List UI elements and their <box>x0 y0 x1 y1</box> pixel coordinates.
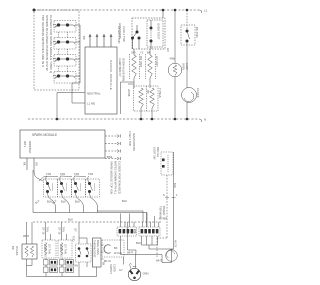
ignition switch SW1 <box>53 21 80 38</box>
svg-text:BK: BK <box>82 36 86 40</box>
node junction top-left <box>33 9 36 12</box>
power plug P1 <box>128 264 140 281</box>
contact dot B <box>131 37 134 40</box>
wire L1 top rail <box>34 9 199 11</box>
wire door switch bottom lead <box>166 175 168 238</box>
wire ignitor bottom lead <box>123 257 125 265</box>
ignitor switch S1 <box>44 176 58 201</box>
wire ignitor feed <box>128 222 137 250</box>
contact dot D <box>150 27 153 30</box>
spark module box U2 <box>20 130 105 158</box>
ignition switch SW4 <box>53 72 80 84</box>
ignitor resistor R2 <box>148 55 153 78</box>
ignitor switch S2 <box>58 176 72 201</box>
svg-text:Y2: Y2 <box>140 51 144 55</box>
ignitor resistor R4 <box>150 88 155 108</box>
surface valve box 1 <box>42 240 56 258</box>
wire valve top lead 1 <box>26 222 28 244</box>
svg-text:CLOCK: CLOCK <box>196 88 200 98</box>
thermostat switch box dashed <box>132 18 165 49</box>
oven ignitor horseshoe <box>104 245 111 253</box>
svg-text:WHT: WHT <box>127 251 133 255</box>
gas valve coil 2 <box>30 246 33 257</box>
control box U1 <box>85 47 117 114</box>
svg-text:LAMP: LAMP <box>185 63 188 70</box>
svg-text:20W8: 20W8 <box>127 89 131 97</box>
node L1 hook <box>199 10 202 13</box>
svg-text:TAN: TAN <box>73 265 78 268</box>
top ignition switches dashed enclosure <box>34 10 79 90</box>
svg-text:WHT: WHT <box>23 234 29 238</box>
svg-text:40W: 40W <box>170 57 176 61</box>
ignition switch SW3 <box>53 55 80 72</box>
svg-text:BLK: BLK <box>75 200 80 204</box>
wire switch outputs to bus <box>53 201 56 213</box>
svg-text:2 GR 4 TOP: 2 GR 4 TOP <box>122 26 126 42</box>
wire plug drop <box>134 250 137 268</box>
dashed guide right of R2 <box>155 54 157 79</box>
svg-text:BLK: BLK <box>68 218 73 222</box>
dashed guide left of R2 <box>145 54 147 79</box>
dashed box around R3 R4 <box>134 86 159 111</box>
svg-text:WHT: WHT <box>156 259 162 263</box>
svg-text:LR UNIT: LR UNIT <box>155 56 159 67</box>
node junction at 187,10 <box>186 9 189 12</box>
svg-text:BLK: BLK <box>136 241 141 245</box>
dashed divider between R3 R4 <box>146 86 148 111</box>
wire valve top lead 2 <box>31 222 33 244</box>
wire BLK bus solid <box>33 212 147 214</box>
wire switch top <box>186 10 188 31</box>
wire strip A outputs <box>120 236 122 255</box>
node junction at 57,119 <box>56 118 59 121</box>
bottom section group <box>22 152 177 281</box>
oven lamp circle <box>168 63 182 77</box>
svg-text:IGNITORS BK: IGNITORS BK <box>132 133 136 151</box>
oven light door switch dashed box <box>161 152 173 175</box>
svg-text:W·IGN: W·IGN <box>114 251 122 255</box>
wire contact drops <box>136 25 138 32</box>
wire bus corner down <box>146 213 148 228</box>
svg-text:BK: BK <box>147 51 151 55</box>
wire neutral into box <box>57 93 85 120</box>
svg-text:BK-IG: BK-IG <box>104 260 111 263</box>
wire switch bottom <box>186 41 188 88</box>
thermostat pin ticks <box>101 244 104 246</box>
pin arrow 2 <box>96 35 98 48</box>
connector row 1 block 2 <box>60 260 74 266</box>
node junction at 175,10 <box>174 9 177 12</box>
svg-text:BLK: BLK <box>122 199 127 203</box>
wire lamp top <box>174 10 176 63</box>
right cluster group <box>131 10 165 49</box>
svg-text:BK: BK <box>114 246 118 250</box>
pin arrow 3 <box>103 35 105 48</box>
wire valve to bottom rail <box>26 266 28 277</box>
switch blade <box>187 31 190 39</box>
contact dot A <box>136 31 139 34</box>
wire R3 bottom to N <box>140 108 142 119</box>
connector row 1 block 1 <box>44 260 58 266</box>
module box group <box>85 35 117 115</box>
svg-text:BLK: BLK <box>61 200 66 204</box>
svg-text:TAN: TAN <box>60 172 65 176</box>
wire down to WHT <box>156 238 158 258</box>
wire switch bus <box>72 25 85 103</box>
oven ignitor switch cluster <box>76 244 92 262</box>
dashed guide right of R1 <box>139 54 141 79</box>
lamp stem <box>168 249 172 263</box>
wire valve bottom leads <box>27 259 33 266</box>
svg-text:BK: BK <box>102 262 105 266</box>
gas valve coil 1 <box>25 246 28 257</box>
wire cluster bottom leads <box>78 262 80 277</box>
ignitor switch S3 <box>72 176 86 201</box>
right lamps group <box>168 10 196 119</box>
svg-text:240: 240 <box>131 51 136 55</box>
node junction at 175,119 <box>174 118 177 121</box>
svg-text:TAN: TAN <box>74 172 79 176</box>
spark module pin OR <box>33 158 35 172</box>
node junction at 141,119 <box>140 118 143 121</box>
contact dot E <box>150 40 153 43</box>
oven ignitor dashed box <box>102 240 124 257</box>
wire R2 leads <box>149 49 151 55</box>
resistors group <box>128 49 158 119</box>
wire cluster top leads <box>79 238 87 244</box>
clock motor circle <box>182 88 197 103</box>
surface valve box 2 <box>58 240 72 258</box>
svg-text:SPARK MODULE: SPARK MODULE <box>32 133 57 137</box>
connector row 2 block 1 <box>44 267 58 273</box>
wire N rail <box>28 118 199 120</box>
door switch bracket <box>167 155 169 172</box>
wire feeds strip B <box>141 222 143 227</box>
svg-text:N: N <box>204 118 206 122</box>
svg-text:N: N <box>163 194 165 197</box>
spark module pin BK <box>26 158 28 170</box>
node junction at 163,10 <box>162 9 165 12</box>
connector row 2 block 2 <box>60 267 74 273</box>
door switch contact top <box>162 159 165 162</box>
ignitor switch S4 <box>86 176 100 201</box>
wire left drop <box>32 170 34 213</box>
wire right main drop <box>173 152 175 249</box>
svg-text:T 05GA: T 05GA <box>158 88 162 98</box>
svg-text:ORN/BLK: ORN/BLK <box>28 141 32 153</box>
wire upper link <box>128 83 134 85</box>
node junction at 152,119 <box>151 118 154 121</box>
svg-text:CLOSED FOR SPARK MODULE YZWV Q: CLOSED FOR SPARK MODULE YZWV Q <box>49 15 53 74</box>
oven light switch dashed <box>181 25 195 45</box>
wire valve2 drops <box>61 222 63 240</box>
wire TAN feed bus <box>39 177 58 182</box>
label: TOP IGNITION SWITCHES SHOWN IN CLOSED POSITION <box>41 15 53 74</box>
wire bottom rail <box>27 276 97 278</box>
terminal strip B <box>139 227 160 236</box>
wire from L1 into cluster <box>162 10 164 18</box>
wire valve1 drops <box>45 222 47 240</box>
wire clock bottom <box>186 103 188 120</box>
contact dot C <box>138 37 141 40</box>
surface valve coil 2 <box>60 243 63 256</box>
svg-text:RF: RF <box>146 90 150 94</box>
svg-text:SPARK MODULE: SPARK MODULE <box>109 60 113 90</box>
svg-text:GY: GY <box>119 269 123 272</box>
door switch contact bottom <box>162 165 165 168</box>
wire L to lower box <box>121 82 135 114</box>
wire R1 leads <box>133 49 135 55</box>
wire BLK dashed rail <box>33 221 162 223</box>
wire door switch elbow <box>157 237 167 239</box>
svg-text:GY: GY <box>166 48 170 52</box>
oven lamp B2 circle <box>166 250 178 262</box>
svg-text:W GAS: W GAS <box>15 246 19 255</box>
node junction at 187,119 <box>186 118 189 121</box>
ignitor resistor R1 <box>132 55 137 78</box>
wire module pin to switch row <box>34 172 43 181</box>
switch contact bottom <box>186 40 189 43</box>
svg-text:NEUTRAL: NEUTRAL <box>87 92 101 96</box>
wire R4 bottom to N <box>151 108 153 119</box>
clock inner loop <box>184 92 194 101</box>
switch units group top <box>53 21 85 120</box>
svg-text:TAN: TAN <box>46 172 51 176</box>
wire feeds strip A <box>120 214 122 228</box>
spark module output 1 <box>105 135 120 138</box>
svg-text:BS4: BS4 <box>107 155 113 159</box>
wire blade A <box>133 32 138 38</box>
svg-text:RR UNIT: RR UNIT <box>139 56 143 68</box>
spark module output 4 <box>105 157 120 160</box>
svg-text:L1 NE: L1 NE <box>87 102 95 106</box>
gas valve box <box>22 244 37 259</box>
oven thermostat box <box>93 238 102 267</box>
surface valve coil 1 <box>44 243 47 256</box>
mid switch row group <box>33 170 162 227</box>
node N hook <box>199 119 202 122</box>
ignitor resistor R3 <box>139 88 144 108</box>
svg-text:TAN: TAN <box>88 172 93 176</box>
wire horizontal to lamp <box>149 248 174 250</box>
svg-text:GY/BR: GY/BR <box>159 217 167 221</box>
spark module output 3 <box>105 150 120 153</box>
inner dashed partition <box>147 20 163 47</box>
terminal strip A <box>117 227 137 236</box>
spark module group <box>20 130 120 172</box>
svg-text:GRN: GRN <box>143 272 149 276</box>
ignition switch SW2 <box>53 38 80 55</box>
wire lamp bottom <box>174 77 176 119</box>
tick mark right <box>172 197 176 199</box>
wire thermostat bottom <box>96 267 98 277</box>
dashed guide left of R1 <box>129 54 131 79</box>
pin arrow 1 <box>89 35 91 48</box>
spark module output 2 <box>105 142 120 145</box>
switch contact top <box>186 30 189 33</box>
svg-text:BK-TOR: BK-TOR <box>195 27 199 38</box>
tick mark left <box>165 197 169 199</box>
pin arrow 4 <box>110 35 112 48</box>
wire connectors link <box>45 258 47 260</box>
wire strip B outputs <box>141 236 143 245</box>
svg-text:2M 1: 2M 1 <box>23 141 27 148</box>
svg-text:L1: L1 <box>204 9 208 13</box>
lamp filament <box>173 65 177 76</box>
wire bus second line <box>97 211 143 222</box>
